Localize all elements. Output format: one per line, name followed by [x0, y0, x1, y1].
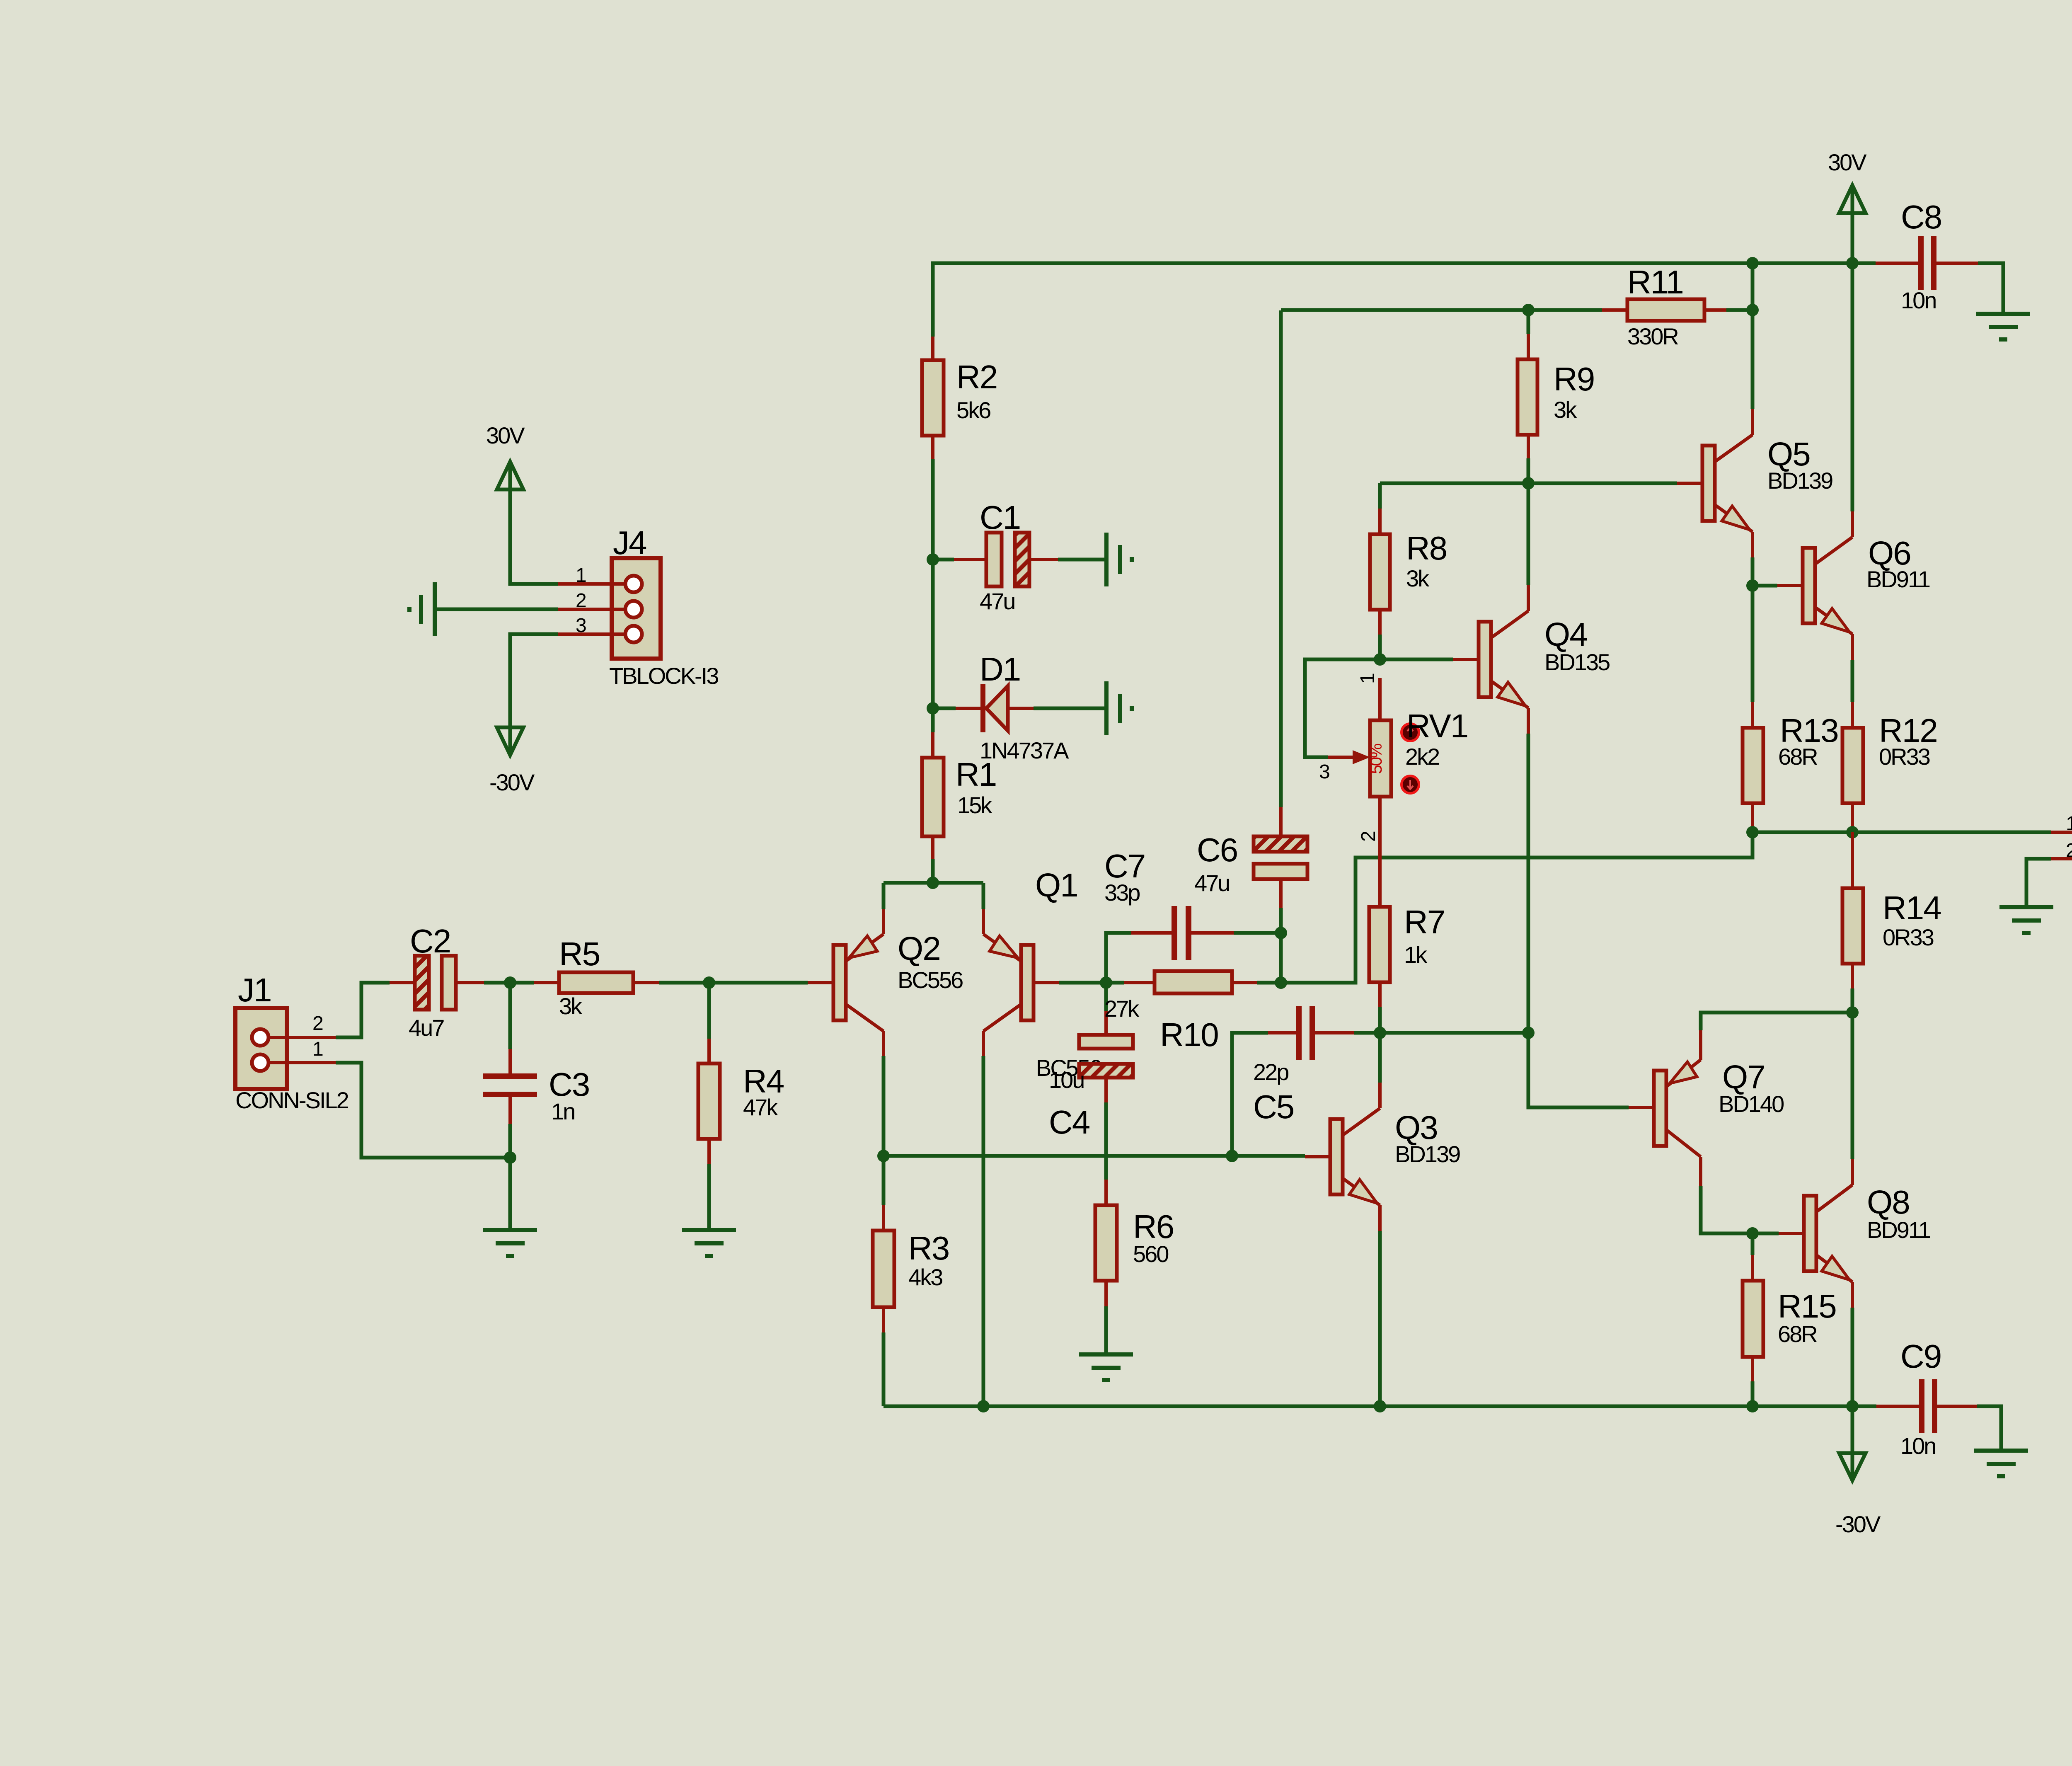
transistor Q1 BC556 (PNP right, mirrored)	[983, 867, 1101, 1406]
svg-text:TBLOCK-I3: TBLOCK-I3	[609, 663, 718, 689]
wire Q4 emitter down to Q7 base	[1528, 1033, 1629, 1107]
svg-text:27k: 27k	[1104, 996, 1140, 1022]
svg-text:R10: R10	[1160, 1016, 1218, 1053]
node C1 junction	[927, 553, 939, 566]
wire R11 node up to 30V rail	[1751, 263, 1755, 310]
svg-text:330R: 330R	[1627, 323, 1678, 349]
wire C3 node to ground	[508, 1158, 512, 1230]
transistor Q4 BD135 (NPN)	[1453, 483, 1610, 1033]
svg-text:3k: 3k	[559, 993, 583, 1019]
wire J1 pin1 to ground row	[336, 1063, 510, 1158]
svg-text:33p: 33p	[1104, 879, 1140, 906]
svg-text:BD135: BD135	[1544, 649, 1610, 675]
transistor Q2 BC556 (PNP left)	[808, 883, 963, 1156]
wire Q8 base node	[1752, 1232, 1779, 1235]
svg-text:2: 2	[2066, 840, 2072, 862]
svg-text:C2: C2	[410, 923, 450, 959]
resistor R10	[1104, 971, 1281, 1053]
wire Q1 base to C4 node	[1059, 981, 1106, 985]
node J1 ground junction	[504, 1151, 516, 1164]
svg-text:BD911: BD911	[1866, 566, 1930, 592]
svg-text:10u: 10u	[1049, 1067, 1084, 1093]
resistor R13	[1743, 586, 1838, 828]
svg-text:CONN-SIL2: CONN-SIL2	[235, 1087, 349, 1113]
wire bootstrap rail2	[1281, 308, 1528, 312]
node Q5 emitter junction	[1746, 579, 1759, 592]
wire feedback node to output	[1281, 832, 1752, 983]
capacitor C9 10n	[1876, 1338, 2001, 1459]
svg-text:Q1: Q1	[1035, 867, 1078, 904]
resistor R15	[1743, 1233, 1836, 1406]
resistor R3	[873, 1156, 949, 1406]
svg-text:C1: C1	[980, 499, 1020, 536]
svg-text:3: 3	[576, 615, 587, 637]
svg-text:R11: R11	[1627, 264, 1683, 300]
ground (R6)	[1079, 1354, 1133, 1380]
svg-text:1: 1	[576, 564, 587, 586]
svg-text:C4: C4	[1049, 1104, 1090, 1141]
wire emitter tie rail	[884, 881, 983, 885]
potentiometer RV1 2k2	[1305, 659, 1468, 842]
resistor R4	[698, 983, 784, 1230]
wire output line	[1752, 831, 2051, 834]
transistor Q8 BD911 (NPN)	[1779, 1013, 1930, 1406]
svg-text:15k: 15k	[957, 792, 992, 818]
svg-text:30V: 30V	[486, 422, 525, 448]
svg-text:47u: 47u	[980, 588, 1014, 614]
ground (J2)	[1999, 907, 2053, 933]
svg-text:560: 560	[1133, 1241, 1168, 1267]
node Q4 emitter junction	[1522, 1027, 1535, 1039]
svg-text:R6: R6	[1133, 1208, 1174, 1245]
wire R2 to C1 node	[931, 459, 935, 560]
svg-text:R7: R7	[1404, 904, 1445, 940]
svg-text:Q2: Q2	[898, 930, 940, 967]
ground (R4)	[682, 1230, 736, 1256]
capacitor C8	[1876, 199, 1978, 313]
svg-text:RV1: RV1	[1406, 707, 1468, 744]
capacitor C4 10u	[1049, 983, 1133, 1180]
wire Q2 collector to Q3 base	[884, 1154, 1232, 1158]
svg-text:J4: J4	[613, 524, 646, 561]
node output right junction	[1846, 826, 1859, 838]
node Q2 collector junction	[877, 1150, 890, 1162]
svg-text:Q8: Q8	[1867, 1184, 1910, 1221]
ground (D1, rotated)	[1106, 681, 1132, 735]
wire R7 node to Q4 emitter line	[1380, 1031, 1528, 1035]
capacitor C7 33p	[1104, 848, 1281, 983]
power -30V arrow (bottom)	[1835, 1406, 1881, 1537]
svg-text:Q4: Q4	[1544, 616, 1587, 653]
node Q7 emitter junction	[1846, 1006, 1859, 1019]
node R11 rail junction	[1746, 257, 1759, 269]
svg-text:2: 2	[312, 1013, 324, 1034]
node output left junction	[1746, 826, 1759, 838]
transistor Q7 BD140 (PNP)	[1629, 1013, 1852, 1233]
svg-text:Q5: Q5	[1767, 436, 1810, 472]
svg-text:R9: R9	[1554, 361, 1594, 397]
wire RV1 node to Q4 base	[1380, 658, 1453, 661]
svg-text:R1: R1	[956, 756, 996, 793]
node C2/C3 junction	[504, 976, 516, 989]
capacitor C3 1n	[483, 983, 589, 1158]
node R15 on rail	[1746, 1400, 1759, 1412]
svg-text:R2: R2	[956, 359, 997, 395]
node 30V rail junction	[1846, 257, 1859, 269]
resistor R7	[1369, 797, 1445, 1033]
wire J4 pin2 to ground	[435, 608, 558, 611]
resistor R6	[1095, 1180, 1174, 1354]
wire J4 pin3 to -30V	[510, 634, 558, 755]
svg-text:30V: 30V	[1828, 149, 1867, 175]
svg-text:1: 1	[1357, 673, 1379, 684]
node C5 corner junction	[1226, 1150, 1238, 1162]
resistor R1	[922, 708, 996, 883]
svg-text:2: 2	[1358, 831, 1380, 842]
svg-text:1k: 1k	[1404, 942, 1428, 968]
wire J4 pin1 to +30V	[510, 462, 558, 584]
resistor R11	[1528, 264, 1752, 349]
svg-text:3: 3	[1319, 761, 1330, 783]
wire J2 pin2 to ground	[2026, 859, 2051, 907]
svg-text:-30V: -30V	[1835, 1511, 1881, 1537]
capacitor C6 47u	[1194, 310, 1307, 933]
svg-text:Q3: Q3	[1395, 1109, 1438, 1146]
svg-text:5k6: 5k6	[956, 397, 990, 423]
wire J1 pin2 up to input node	[336, 983, 390, 1037]
wire top +30V rail	[933, 263, 1876, 337]
svg-text:1n: 1n	[551, 1098, 574, 1124]
wire Q5 emitter node to Q6 base	[1752, 584, 1777, 588]
node R5/R4 junction	[703, 976, 715, 989]
svg-text:R14: R14	[1883, 889, 1941, 926]
svg-text:J1: J1	[238, 971, 271, 1008]
node D1 junction	[927, 702, 939, 715]
svg-text:BD139: BD139	[1767, 468, 1832, 494]
svg-text:0R33: 0R33	[1879, 744, 1930, 770]
transistor Q6 BD911 (NPN)	[1777, 263, 1930, 702]
connector J1 CONN-SIL2	[235, 971, 349, 1113]
svg-text:BD139: BD139	[1395, 1141, 1460, 1167]
svg-text:C8: C8	[1901, 199, 1941, 235]
svg-text:3k: 3k	[1554, 397, 1577, 423]
node R9 top junction	[1522, 304, 1535, 316]
svg-text:1: 1	[312, 1038, 324, 1060]
node R10 right junction	[1275, 976, 1287, 989]
svg-text:4u7: 4u7	[409, 1015, 444, 1041]
svg-text:47k: 47k	[743, 1094, 778, 1120]
svg-text:BD911: BD911	[1867, 1217, 1930, 1243]
resistor R9	[1518, 310, 1594, 483]
svg-text:4k3: 4k3	[908, 1264, 942, 1290]
node R8/RV1/Q4-base junction	[1374, 653, 1386, 666]
wire C8 to ground corner	[1978, 263, 2003, 314]
svg-text:22p: 22p	[1253, 1059, 1288, 1085]
connector J2 TBLOCK-M2	[2051, 770, 2072, 911]
power -30V arrow (J4)	[489, 727, 535, 795]
svg-text:2k2: 2k2	[1405, 744, 1439, 770]
resistor R8	[1370, 483, 1447, 659]
ground (C1, rotated)	[1106, 533, 1132, 586]
power +30V arrow (top right)	[1828, 149, 1867, 263]
svg-text:C7: C7	[1104, 848, 1145, 884]
svg-text:0R33: 0R33	[1883, 924, 1934, 950]
node Q1 collector on rail	[977, 1400, 990, 1412]
wire R8 top to R9 node	[1380, 482, 1528, 485]
svg-text:BD140: BD140	[1719, 1091, 1784, 1117]
svg-text:10n: 10n	[1900, 1433, 1935, 1459]
resistor R14	[1842, 832, 1941, 1013]
wire C6 node down to R10 node	[1279, 933, 1283, 983]
svg-text:C5: C5	[1253, 1088, 1294, 1125]
diode D1 1N4737A	[933, 651, 1106, 763]
svg-text:47u: 47u	[1194, 870, 1229, 896]
svg-text:C3: C3	[549, 1066, 589, 1103]
resistor R5	[510, 935, 709, 1019]
svg-text:50%: 50%	[1367, 744, 1385, 774]
svg-text:-30V: -30V	[489, 769, 535, 795]
wire bottom rail	[884, 1405, 1876, 1408]
wire R5 node to Q2 base	[709, 981, 808, 985]
resistor R2	[922, 337, 997, 459]
svg-text:R3: R3	[908, 1230, 949, 1267]
RV1 indicator up	[1402, 724, 1419, 741]
wire R9 node to Q5 base	[1528, 482, 1677, 485]
node Q8 base junction	[1746, 1227, 1759, 1240]
svg-text:10n: 10n	[1901, 287, 1936, 313]
wire C1 node to D1 node	[931, 560, 935, 708]
node emitter tie junction	[927, 877, 939, 889]
connector J4 TBLOCK-I3	[558, 524, 718, 689]
svg-text:3k: 3k	[1406, 565, 1430, 591]
node Q3 emitter on rail	[1374, 1400, 1386, 1412]
svg-text:BC556: BC556	[898, 967, 963, 993]
node Q1 base junction	[1100, 976, 1112, 989]
transistor Q5 BD139 (NPN)	[1677, 310, 1832, 586]
wire to Q3 base	[1232, 1154, 1305, 1158]
svg-text:C6: C6	[1197, 831, 1237, 868]
capacitor C1	[933, 499, 1106, 614]
transistor Q3 BD139 (NPN)	[1305, 1033, 1460, 1406]
ground (C8)	[1976, 314, 2030, 339]
svg-text:R5: R5	[559, 935, 600, 972]
svg-text:C9: C9	[1900, 1338, 1941, 1375]
ground (C9)	[1974, 1451, 2028, 1476]
svg-text:68R: 68R	[1778, 744, 1817, 770]
capacitor C5 22p	[1232, 1006, 1380, 1156]
node R7/C5/Q3 junction	[1374, 1027, 1386, 1039]
node Q8 emitter on rail	[1846, 1400, 1859, 1412]
svg-text:68R: 68R	[1778, 1321, 1817, 1347]
RV1 indicator down	[1402, 776, 1419, 793]
ground (C3)	[483, 1230, 537, 1256]
power +30V arrow (J4)	[486, 422, 525, 489]
node R9/Q4-collector junction	[1522, 477, 1535, 489]
svg-text:R8: R8	[1406, 530, 1447, 567]
node R11 right junction	[1746, 304, 1759, 316]
node C7/C6 junction	[1275, 927, 1287, 939]
ground (J4, rotated mirrored)	[409, 582, 435, 636]
svg-text:D1: D1	[980, 651, 1020, 688]
resistor R12	[1842, 702, 1937, 828]
svg-text:Q7: Q7	[1722, 1059, 1765, 1095]
svg-text:R15: R15	[1778, 1288, 1836, 1325]
capacitor C2 4u7	[390, 923, 510, 1041]
svg-text:1: 1	[2066, 813, 2072, 835]
svg-text:2: 2	[576, 590, 587, 612]
